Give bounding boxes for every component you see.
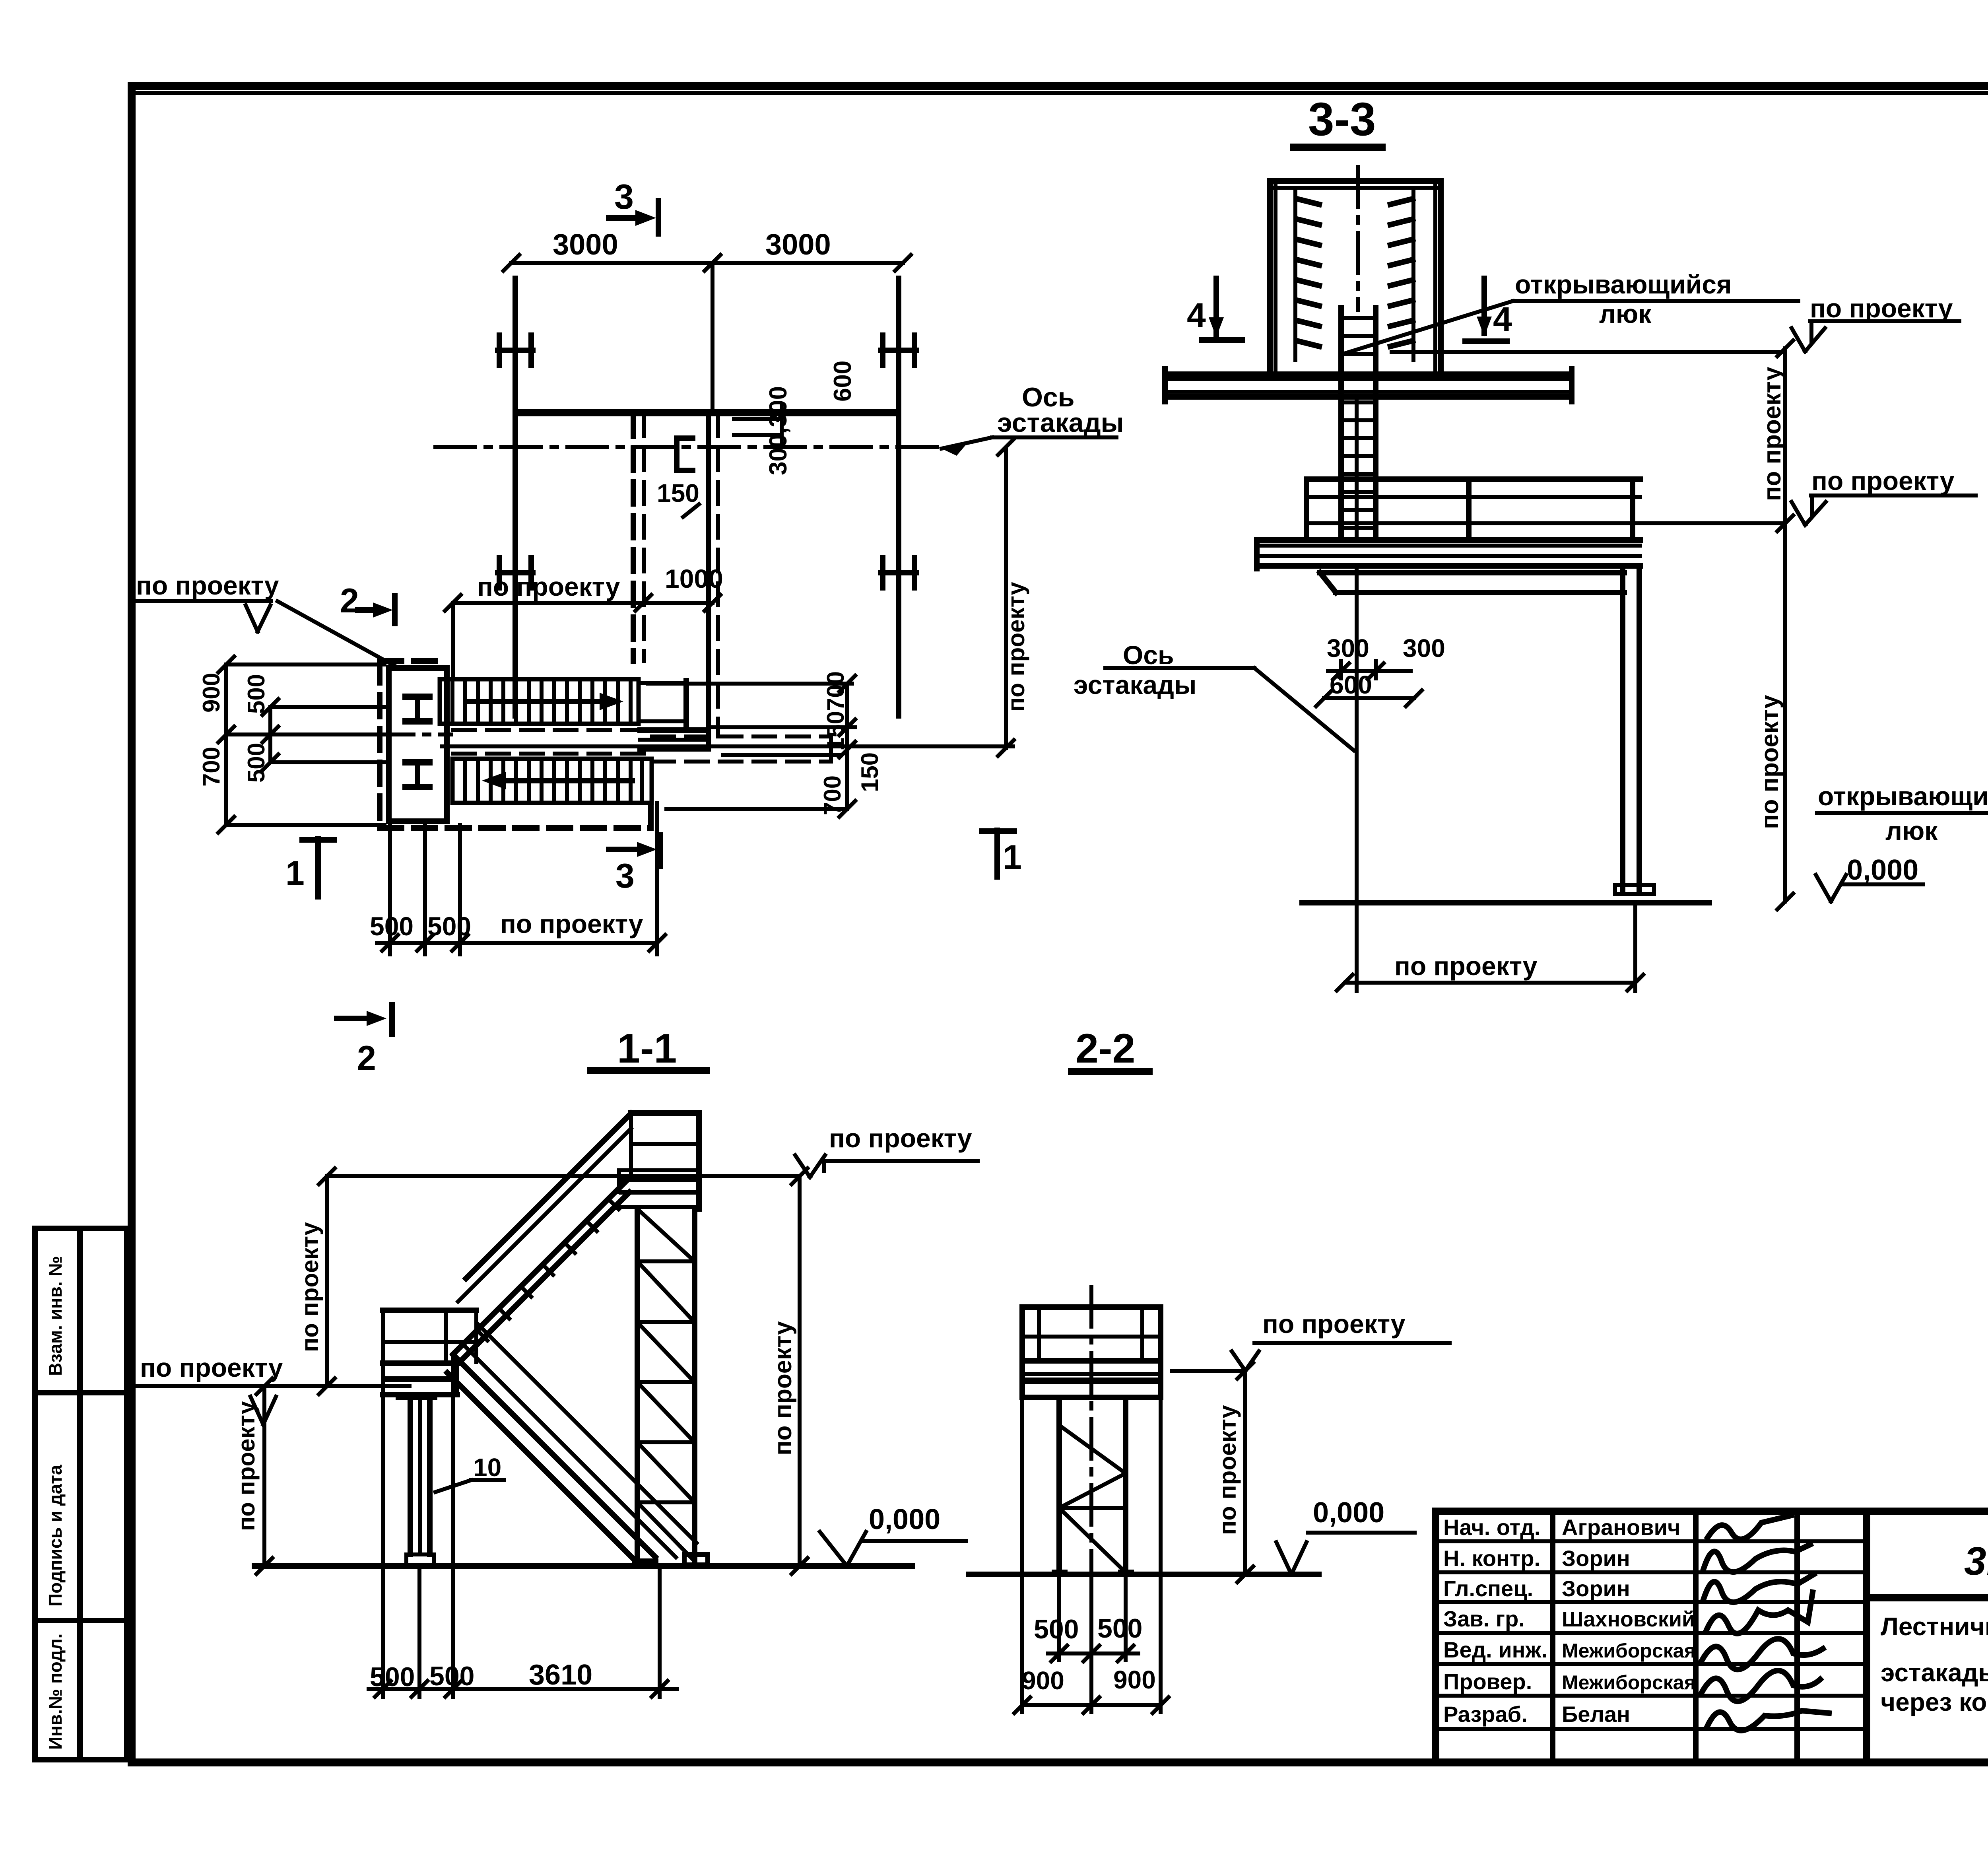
svg-text:по проекту: по проекту <box>500 909 643 938</box>
level line 2 to dim <box>1640 521 1785 525</box>
svg-text:500: 500 <box>243 674 270 714</box>
tower truss <box>637 1209 695 1561</box>
svg-text:2-2: 2-2 <box>1076 1026 1135 1072</box>
I-beam column symbols (upper pair) <box>498 335 916 365</box>
right vertical dim по проекту (plan) <box>998 439 1029 756</box>
section mark 4 (right) <box>1465 278 1512 341</box>
svg-text:эстакады: эстакады <box>1074 670 1196 699</box>
svg-text:500: 500 <box>370 911 414 941</box>
tower column (2-2) <box>1052 1397 1134 1572</box>
label открывающийся люк (4-4) <box>1817 530 1988 845</box>
tower top platform <box>619 1113 699 1209</box>
svg-text:500: 500 <box>1034 1614 1079 1644</box>
mid platform <box>383 1310 476 1395</box>
title 2-2 <box>1072 1026 1149 1072</box>
elevation 0,000 (2-2) <box>1276 1497 1415 1574</box>
svg-text:Вед. инж.: Вед. инж. <box>1443 1637 1547 1662</box>
small dims 300 300 600 under ladder <box>1316 634 1445 706</box>
svg-text:2: 2 <box>340 582 359 620</box>
lower stair flight (incline) <box>447 1323 697 1562</box>
svg-text:3000: 3000 <box>765 228 831 261</box>
svg-text:150: 150 <box>657 479 699 507</box>
svg-text:3: 3 <box>615 857 635 895</box>
svg-text:150: 150 <box>822 711 849 751</box>
по проекту level label 2 <box>1792 466 1976 525</box>
svg-text:по проекту: по проекту <box>1214 1405 1241 1535</box>
title 3-3 <box>1294 93 1382 147</box>
svg-text:1-1: 1-1 <box>617 1026 677 1072</box>
lower platform railing <box>1307 479 1640 540</box>
svg-text:Зав. гр.: Зав. гр. <box>1443 1606 1525 1631</box>
section mark 3 (top) <box>609 177 658 234</box>
ground line (1-1) <box>254 1563 912 1569</box>
platform support post <box>396 1397 437 1565</box>
upper stair flight (incline) <box>453 1113 631 1360</box>
lower stair flight (plan, hatched) <box>452 759 652 803</box>
svg-text:700: 700 <box>819 775 846 815</box>
svg-text:500: 500 <box>243 743 270 783</box>
svg-text:по проекту: по проекту <box>1811 466 1955 495</box>
ground line (3-3) <box>1302 900 1709 905</box>
section mark 4 (left) <box>1187 278 1242 340</box>
svg-text:Зорин: Зорин <box>1562 1576 1630 1601</box>
svg-text:по проекту: по проекту <box>1759 367 1786 501</box>
svg-text:2: 2 <box>357 1039 376 1077</box>
svg-text:Нач. отд.: Нач. отд. <box>1443 1515 1540 1540</box>
upper stair flight (plan, hatched) <box>440 679 686 726</box>
svg-text:люк: люк <box>1599 299 1652 328</box>
svg-text:Межиборская: Межиборская <box>1562 1640 1696 1662</box>
svg-text:через компенсатор.: через компенсатор. <box>1881 1688 1988 1716</box>
svg-text:по проекту: по проекту <box>297 1222 323 1352</box>
svg-text:Зорин: Зорин <box>1562 1546 1630 1571</box>
dim 900 900 (2-2) <box>1014 1397 1169 1713</box>
right dim (2-2) <box>1214 1363 1253 1582</box>
svg-text:500: 500 <box>1097 1613 1142 1644</box>
upper platform beam <box>1165 369 1572 402</box>
section mark 2 (top) <box>340 582 395 624</box>
elevation 0,000 (3-3) <box>1816 854 1923 902</box>
svg-text:3: 3 <box>614 177 634 216</box>
svg-text:4: 4 <box>1187 296 1206 334</box>
svg-text:700: 700 <box>822 671 849 711</box>
axis (2-2) <box>1089 1287 1093 1577</box>
svg-text:Агранович: Агранович <box>1562 1515 1681 1540</box>
svg-text:Н. контр.: Н. контр. <box>1443 1546 1540 1571</box>
svg-text:900: 900 <box>1113 1665 1156 1694</box>
svg-text:Инв.№ подл.: Инв.№ подл. <box>45 1634 66 1750</box>
opening dashed edges (left pair) <box>633 414 644 661</box>
svg-text:3610: 3610 <box>529 1659 592 1691</box>
opening edge right: solid + dashed <box>709 414 718 749</box>
svg-text:по проекту: по проекту <box>829 1123 972 1153</box>
по проекту label (2-2) <box>1172 1309 1450 1371</box>
svg-text:Шахновский: Шахновский <box>1562 1607 1695 1631</box>
section mark 2 (bottom) <box>337 1005 392 1077</box>
trestle column (3-3) <box>1615 566 1654 894</box>
svg-text:по проекту: по проекту <box>769 1321 797 1455</box>
svg-text:0,000: 0,000 <box>1847 854 1918 886</box>
big right cells <box>1867 1594 1988 1601</box>
svg-text:600: 600 <box>1330 670 1372 699</box>
level line to upper dim <box>1392 350 1785 354</box>
svg-text:по проекту: по проекту <box>233 1401 260 1531</box>
svg-text:1000: 1000 <box>665 564 723 593</box>
svg-text:3000: 3000 <box>553 228 618 261</box>
trestle axis line (3-3) <box>1355 400 1359 991</box>
under-floor support beam <box>1320 573 1624 593</box>
svg-text:Межиборская: Межиборская <box>1562 1671 1696 1694</box>
по проекту label top right (1-1) <box>795 1123 978 1177</box>
svg-text:300: 300 <box>1403 634 1445 663</box>
svg-text:по проекту: по проекту <box>136 571 279 600</box>
svg-text:Провер.: Провер. <box>1443 1669 1532 1694</box>
dashed opening outline around stair <box>380 661 831 828</box>
svg-text:300,300: 300,300 <box>765 386 792 475</box>
svg-text:эстакады: эстакады <box>997 408 1124 438</box>
left side chain dims 900/500/500/700 <box>198 657 384 833</box>
section mark 1 (left) <box>285 839 334 897</box>
svg-text:Ось: Ось <box>1123 640 1174 670</box>
по проекту level label 1 <box>1792 293 1959 352</box>
axis label upper: ось эстакады <box>942 382 1124 456</box>
dim 500 500 (2-2) <box>1034 1572 1142 1661</box>
svg-text:открывающийся: открывающийся <box>1818 781 1988 811</box>
small dims 600 / 300,300 <box>734 361 856 475</box>
axis label lower: ось эстакады <box>1074 640 1354 750</box>
walkway edge beam (plan, thick) <box>515 409 899 416</box>
svg-text:Взам. инв. №: Взам. инв. № <box>45 1256 66 1376</box>
svg-text:по проекту: по проекту <box>140 1353 283 1382</box>
right dim по проекту (1-1) <box>769 1168 808 1574</box>
top railing (2-2) <box>1022 1307 1161 1397</box>
svg-text:500: 500 <box>370 1662 415 1692</box>
svg-text:600: 600 <box>829 361 856 402</box>
svg-text:по проекту: по проекту <box>1756 695 1784 829</box>
bottom dim по проекту (3-3) <box>1337 905 1643 991</box>
section mark 3 (bottom) <box>609 835 660 895</box>
bottom dim 500 500 3610 <box>369 1356 677 1697</box>
left dims (1-1) <box>135 1168 410 1574</box>
150 offset bracket <box>657 438 699 517</box>
trestle axis (dash-dot) <box>435 445 938 449</box>
svg-text:люк: люк <box>1885 816 1938 845</box>
svg-text:по проекту: по проекту <box>1810 293 1953 323</box>
svg-text:Разраб.: Разраб. <box>1443 1702 1528 1727</box>
section mark 1 (right) <box>982 830 1022 877</box>
svg-text:900: 900 <box>198 673 225 713</box>
label 10 <box>435 1453 504 1492</box>
svg-text:Белан: Белан <box>1562 1702 1630 1727</box>
svg-text:3.015.2-15.1-74: 3.015.2-15.1-74 <box>1964 1539 1988 1584</box>
svg-text:1: 1 <box>1003 838 1022 876</box>
bottom dim 500,500 по проекту <box>370 803 665 954</box>
svg-text:3-3: 3-3 <box>1308 93 1376 146</box>
svg-text:500: 500 <box>427 911 471 941</box>
right walkway solid edges <box>640 730 709 749</box>
ground line (2-2) <box>969 1572 1319 1577</box>
svg-text:0,000: 0,000 <box>869 1504 940 1535</box>
svg-text:по проекту: по проекту <box>1003 582 1029 712</box>
svg-text:300: 300 <box>1327 634 1369 663</box>
svg-text:500: 500 <box>429 1661 474 1691</box>
right dim column of 3-3 <box>1756 340 1793 909</box>
svg-text:700: 700 <box>198 747 225 787</box>
svg-text:по проекту: по проекту <box>1262 1309 1406 1339</box>
I-beam column symbols (lower pair) <box>498 558 916 588</box>
platform deck band (2-2) <box>1022 1361 1161 1397</box>
elevation 0,000 (1-1) <box>820 1504 966 1566</box>
svg-text:Подпись и дата: Подпись и дата <box>45 1465 66 1607</box>
compensator box <box>1270 167 1441 371</box>
svg-text:0,000: 0,000 <box>1313 1497 1384 1529</box>
right side chain dims 700/150/150/700 <box>442 671 1013 817</box>
dim по проекту + 1000 <box>445 564 723 676</box>
svg-text:Гл.спец.: Гл.спец. <box>1443 1576 1533 1601</box>
title block <box>1436 1511 1988 1762</box>
svg-text:по проекту: по проекту <box>1394 951 1538 981</box>
svg-text:10: 10 <box>473 1453 501 1482</box>
svg-text:900: 900 <box>1022 1666 1064 1695</box>
left margin stamp boxes <box>35 1228 127 1760</box>
stair landing (plan) <box>374 668 451 821</box>
signatures (handwritten scribbles) <box>1708 1515 1791 1539</box>
tower base pad <box>684 1554 708 1565</box>
lower platform floor <box>1257 540 1640 569</box>
middle dashed handrail lines <box>453 730 652 754</box>
label: открывающийся люк (3-3) <box>1345 270 1798 353</box>
svg-text:Лестничный подъем на: Лестничный подъем на <box>1881 1612 1988 1641</box>
svg-text:открывающийся: открывающийся <box>1515 270 1732 299</box>
svg-text:1: 1 <box>285 854 305 892</box>
dim line 3000+3000 <box>503 228 911 414</box>
title 1-1 <box>590 1026 707 1072</box>
svg-text:150: 150 <box>856 752 883 792</box>
svg-text:по проекту: по проекту <box>477 572 620 601</box>
top level reference line <box>327 1174 800 1178</box>
vertical ladder <box>1341 308 1376 540</box>
left по проекту label with leader to landing <box>134 571 397 667</box>
svg-text:эстакады типов 3 и 4: эстакады типов 3 и 4 <box>1881 1658 1988 1687</box>
trestle column axis lines (plan) <box>515 278 899 716</box>
